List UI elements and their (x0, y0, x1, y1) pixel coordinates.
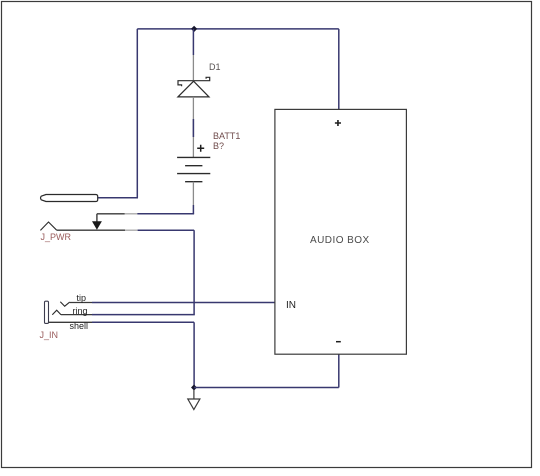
wire mid line light segment (125, 213, 138, 215)
wire lower line navy segment (138, 229, 195, 231)
connector J_IN body (45, 301, 49, 323)
label J_PWR (41, 232, 72, 242)
battery BATT1 plus sign (197, 145, 204, 152)
label ring (73, 306, 88, 316)
battery BATT1 plate 2 short (185, 165, 202, 167)
node ground junction dot (191, 385, 197, 391)
label B? (213, 141, 224, 151)
AUDIO BOX minus pin mark (336, 341, 341, 343)
wire lower line light segment (125, 229, 137, 231)
wire J_PWR sleeve to left vertical (97, 197, 138, 199)
ground symbol (188, 399, 200, 410)
pin lead gray below BATT1 (192, 182, 194, 205)
battery BATT1 plate 3 long (177, 173, 210, 175)
wire segment between D1 and BATT1 (192, 119, 194, 137)
junction arrow onto J_PWR tip line (92, 221, 102, 229)
connector J_IN ring chevron (52, 310, 61, 315)
wire battery minus down to mid line (192, 205, 194, 214)
wire bottom line ground to box minus (194, 387, 339, 389)
label IN (286, 300, 296, 311)
wire J_IN shell (92, 321, 194, 323)
wire vertical shell down to ground node (193, 322, 195, 387)
pin lead J_IN shell (49, 321, 93, 323)
wire J_IN tip to AUDIO BOX IN (92, 302, 275, 304)
label BATT1 (213, 131, 240, 141)
battery BATT1 plate 4 short (185, 181, 202, 183)
wire left vertical from top rail to J_PWR sleeve (136, 29, 138, 198)
pin lead gray between D1 and BATT1 (192, 97, 194, 157)
connector J_PWR tip chevron (40, 222, 56, 230)
wire right vertical from top rail to AUDIO BOX + (338, 29, 340, 110)
pin lead J_IN tip (70, 302, 92, 304)
AUDIO BOX plus pin mark (335, 120, 341, 126)
wire lower line J_PWR tip (dark segment) (57, 229, 126, 231)
ground stub (193, 390, 195, 399)
diode D1 anode triangle (178, 81, 209, 97)
connector J_IN tip chevron (60, 302, 69, 307)
wire arrow stub (96, 214, 98, 223)
battery BATT1 plate 1 long (177, 156, 210, 158)
pin lead gray above D1 (192, 55, 194, 80)
op-amp U1 AUDIO BOX outline (275, 109, 407, 354)
pin lead J_IN ring (61, 314, 92, 316)
wire mid line battery-minus to arrow (dark segment) (97, 213, 125, 215)
wire J_IN ring (92, 314, 195, 316)
label shell (70, 321, 89, 331)
wire diode D1 top lead (192, 29, 194, 55)
label J_IN (40, 330, 59, 340)
label D1 (209, 62, 221, 72)
diode D1 zener cathode bar (178, 77, 210, 86)
label AUDIO BOX (310, 235, 370, 246)
label tip (77, 293, 87, 303)
wire vertical J_PWR tip down to J_IN ring (193, 230, 195, 314)
connector J_PWR sleeve barrel (41, 195, 98, 202)
wire top rail V+ (137, 28, 338, 30)
wire vertical up to AUDIO BOX - (338, 354, 340, 387)
node junction dot on top rail (191, 26, 197, 32)
wire mid line navy segment (137, 213, 194, 215)
